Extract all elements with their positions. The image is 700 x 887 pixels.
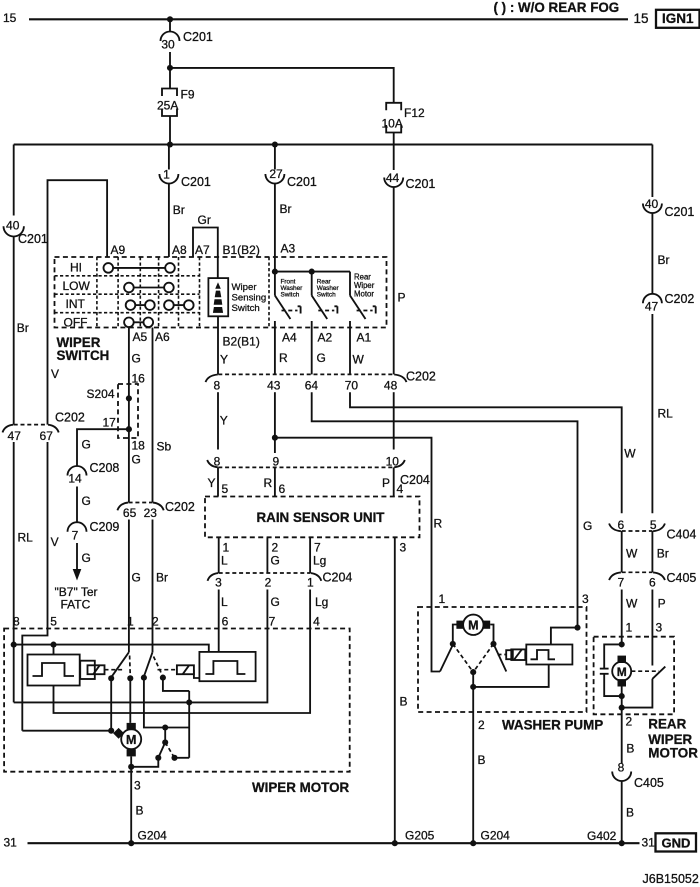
svg-text:A9: A9 [111,243,126,257]
svg-text:18: 18 [132,439,146,453]
svg-text:1: 1 [626,621,633,635]
svg-text:RL: RL [18,531,34,545]
svg-text:Br: Br [17,321,29,335]
svg-text:3: 3 [400,541,407,555]
svg-text:B1(B2): B1(B2) [223,243,260,257]
svg-text:G: G [271,554,280,568]
svg-text:B: B [626,742,634,756]
svg-text:6: 6 [222,615,229,629]
wire IGN1 top bus [29,18,628,20]
svg-text:31: 31 [4,836,18,850]
wire F12 to C201-44 [393,133,395,171]
svg-text:2: 2 [626,715,633,729]
svg-text:M: M [617,665,627,679]
svg-text:G: G [132,571,141,585]
wire P C405-6 to rear wiper pin 3 [651,590,653,666]
svg-text:G: G [82,494,91,508]
svg-text:14: 14 [68,472,82,486]
rear wiper park switch linkage [631,670,659,672]
junction sense on pin8 rail [186,699,192,705]
junction F9/F12 feed [167,65,173,71]
svg-text:47: 47 [8,429,22,443]
washer relay pulse box [526,645,572,665]
wire switch2 contact to parking rail [144,678,189,728]
svg-text:B: B [478,753,486,767]
svg-text:Y: Y [220,414,228,428]
wire junction down to fuse F9 [169,68,171,89]
connector C208 pin 14 [68,461,120,486]
wire P C202-48 to C204-10 [393,392,395,449]
wire S204-17 branch to C208 [77,429,129,466]
ground bus [28,842,640,844]
svg-text:R: R [434,517,443,531]
node IGN1 box [656,10,700,28]
wire C204-8 into rain sensor pin 5 [217,467,219,496]
wire contact to motor rail [110,678,112,730]
svg-text:15: 15 [634,11,649,26]
svg-text:Switch: Switch [232,303,260,314]
svg-text:31: 31 [642,836,656,850]
wire relay bottom to output [473,665,549,687]
contact INT row pair 2 [164,300,194,310]
svg-text:G: G [82,438,91,452]
parking switch common junction [162,724,168,730]
wiper switch internal dashed grid columns [96,257,98,328]
svg-text:G204: G204 [481,829,511,843]
junction A3 node [272,269,278,275]
svg-text:WIPER MOTOR: WIPER MOTOR [252,780,350,795]
svg-text:9: 9 [272,454,279,468]
wire C204-9 into rain sensor pin 6 [274,467,276,496]
svg-text:G205: G205 [405,829,435,843]
connector C201 pin 30 [161,30,213,52]
wire pin 5 internal route [22,629,47,731]
capacitor suppressor [600,669,609,674]
wire top rail to relay R [14,645,209,652]
wire motor bottom node [621,687,623,708]
svg-text:W: W [353,353,365,367]
rear washer switch [312,272,338,328]
junction switch 1 linkage contact [127,675,133,681]
wire L C204-3 to wiper motor pin 6 [218,590,220,629]
connector C202 pin 47 right [643,292,695,314]
svg-text:L: L [221,595,228,609]
svg-text:C201: C201 [665,205,695,219]
wire RL to wiper motor pin 8 [13,442,15,629]
wire C201-27 to A3, label Br [274,184,276,272]
rain sensor unit enclosure [205,497,420,538]
svg-text:Gr: Gr [198,213,211,227]
svg-text:10A: 10A [382,117,403,131]
svg-text:64: 64 [305,379,319,393]
wire pin 8 rail to pin 7 [14,629,268,703]
svg-text:6: 6 [649,576,656,590]
svg-text:F9: F9 [181,88,195,102]
svg-text:1: 1 [439,592,446,606]
svg-text:C202: C202 [406,370,436,384]
wire B to ground G402 [621,781,623,843]
wire P from C201-44 to C202-48 [393,187,395,374]
junction rear washer branch [309,269,315,275]
wire arrow to FATC [73,543,91,581]
svg-text:REAR: REAR [648,717,686,732]
svg-text:Wiper: Wiper [232,282,258,293]
contact HI row [104,263,175,273]
wire Br to C202-47 right [651,213,653,294]
svg-text:Lg: Lg [315,595,328,609]
svg-text:B: B [626,806,634,820]
junction parking contact left [155,755,161,761]
svg-text:L: L [221,554,228,568]
svg-text:25A: 25A [157,99,178,113]
wire Br C404-5 to C405-6 [651,531,653,572]
connector C405 row [609,571,696,590]
wire pin 6 to relay R top [218,629,220,652]
wire R branch to washer pump pin 1 [275,438,432,607]
wire sense vertical [188,691,190,758]
relay L pulse box [28,655,80,686]
wire G C202-64 to washer pump 3 [312,392,578,607]
connector C201 pin 1 [159,145,211,190]
svg-text:LOW: LOW [63,279,91,293]
svg-text:6: 6 [617,518,624,532]
svg-text:G: G [132,352,141,366]
washer pump motor M [456,615,490,635]
parking switch linkage [165,742,174,757]
svg-text:65: 65 [123,506,137,520]
svg-text:Br: Br [156,571,168,585]
connector C201 pin 40 left [4,218,48,246]
wire W A1 to C202-70 [349,328,351,375]
wire G A5 through S204 to wiper motor pin 1 [128,328,130,503]
switch 2 linkage [154,657,163,677]
contact OFF row [124,318,153,328]
svg-text:INT: INT [66,297,86,311]
svg-text:W: W [624,447,636,461]
wire RL to C404-5 [651,314,653,513]
svg-text:S204: S204 [87,387,115,401]
linkage to washer coil [498,654,507,656]
svg-text:6: 6 [279,482,286,496]
svg-text:Sensing: Sensing [232,293,267,304]
connector C201 pin 27 [265,145,317,190]
svg-text:P: P [658,597,666,611]
wiper sensing switch [208,278,228,316]
svg-text:8: 8 [13,615,20,629]
node GND box [656,833,697,851]
parking switch blade [158,742,165,757]
wire pin 8 internal drop [13,629,15,703]
svg-text:C208: C208 [90,461,120,475]
svg-text:C202: C202 [165,500,195,514]
connector C202 pins 65/23 [117,500,195,520]
svg-text:C405: C405 [667,571,697,585]
svg-text:FATC: FATC [61,597,91,611]
svg-text:3: 3 [134,779,141,793]
svg-text:W: W [626,597,638,611]
wire C201-30 to junction [169,52,171,68]
wire main bus [14,143,653,145]
svg-text:A3: A3 [281,242,296,256]
svg-text:G: G [583,519,592,533]
svg-text:C209: C209 [90,520,120,534]
svg-text:Br: Br [173,203,185,217]
svg-text:8: 8 [618,761,625,775]
wire R C202-43 to C204-9 [274,392,276,453]
junction relay L feed [50,642,56,648]
washer pump enclosure [418,607,587,712]
connector C201 pin 44 [384,171,435,191]
wire linkage contact to pin8 rail [163,678,189,691]
svg-text:1: 1 [223,541,230,555]
svg-text:Br: Br [280,202,292,216]
junction contact rail motor [108,728,114,734]
wire pin 2 internal drop [152,629,154,653]
svg-text:G: G [317,351,326,365]
svg-text:V: V [51,535,59,549]
connector C204 top row [207,454,430,487]
svg-text:8: 8 [214,454,221,468]
wire pin 3 to relay top [551,628,578,645]
svg-text:( ) : W/O REAR FOG: ( ) : W/O REAR FOG [494,0,620,15]
wiper motor M [113,723,141,757]
washer coil [506,649,525,660]
wire parking right to sense vertical [175,757,190,759]
svg-text:A7: A7 [195,243,210,257]
svg-text:C201: C201 [406,177,436,191]
svg-text:HI: HI [70,260,82,274]
svg-text:R: R [279,351,288,365]
svg-text:C202: C202 [55,411,85,425]
wire stub to relay L [53,645,55,655]
svg-text:1: 1 [127,615,134,629]
svg-text:Y: Y [208,476,216,490]
rear wiper motor M [612,656,631,687]
wire Gr jumper A7 to sensing switch [193,228,218,279]
wire Sb A6 to wiper motor pin 2 [152,328,154,503]
wire Br to C202-47 [13,237,15,425]
linkage coil L to switch 1 [105,669,125,671]
junction switch 2 contact [141,675,147,681]
svg-text:C202: C202 [665,292,695,306]
svg-text:2: 2 [272,541,279,555]
wiper switch internal dashed grid rows [55,275,200,277]
svg-text:70: 70 [345,379,359,393]
svg-text:1: 1 [307,576,314,590]
contact INT row pair 1 [126,300,155,310]
wire washer pump pin 2 to ground [472,687,474,843]
svg-text:M: M [468,619,478,633]
junction motor bottom [128,764,134,770]
svg-text:10: 10 [386,454,400,468]
ground G204 washer pump [470,840,476,846]
wire motor bottom to ground node [130,756,132,766]
svg-text:P: P [382,476,390,490]
svg-text:44: 44 [386,171,400,185]
svg-text:OFF: OFF [64,316,88,330]
front washer switch [275,272,301,328]
junction output node [619,705,625,711]
svg-text:2: 2 [152,615,159,629]
junction A3 branch bus [272,141,278,147]
wire pin 2 to C405-8 [621,708,623,764]
svg-text:C201: C201 [181,175,211,189]
wire bus left drop [13,145,15,216]
svg-text:7: 7 [72,529,79,543]
svg-text:W: W [626,547,638,561]
rear wiper motor switch [350,272,376,328]
wire bus right drop [651,145,653,198]
svg-text:C405: C405 [634,776,664,790]
connector C202 pins 47/67 left [3,411,85,444]
wire sensing switch to B2(B1) [217,316,219,327]
junction on top bus [167,16,173,22]
contact LOW row [124,283,174,293]
wire linkage contact to motor top [129,678,131,723]
svg-text:7: 7 [269,615,276,629]
svg-text:Br: Br [658,253,670,267]
svg-text:43: 43 [267,379,281,393]
junction F9 bus [167,141,173,147]
svg-text:4: 4 [397,482,404,496]
svg-text:G204: G204 [138,829,168,843]
junction switch 1 contact [108,675,114,681]
svg-text:3: 3 [656,621,663,635]
svg-text:2: 2 [478,718,485,732]
svg-text:17: 17 [103,416,117,430]
svg-text:C201: C201 [183,30,213,44]
svg-text:RL: RL [658,407,674,421]
svg-text:A6: A6 [155,330,170,344]
relay R pulse box [199,652,255,681]
svg-text:A8: A8 [172,243,187,257]
svg-text:15: 15 [3,11,17,25]
ground G205 [392,840,398,846]
wire left contact to motor terminal [453,625,457,644]
wire rain sensor pin 3 to ground G205 [394,537,396,843]
svg-text:B2(B1): B2(B1) [223,335,260,349]
svg-text:F12: F12 [404,106,425,120]
svg-text:WASHER PUMP: WASHER PUMP [502,718,603,733]
fuse F12 10A [382,103,426,133]
svg-text:A2: A2 [318,331,333,345]
junction rear wiper pin 1 [619,641,625,647]
junction washer output [470,684,476,690]
switch 2 blade [144,652,153,676]
connector C202 row [206,370,436,393]
junction motor bottom [619,693,625,699]
svg-text:Br: Br [657,547,669,561]
linkage switch 2 to coil R [158,669,176,671]
svg-text:40: 40 [6,218,20,232]
wire suppressor branch [604,644,622,668]
wire Lg rain sensor pin 7 to C204-1 [309,537,311,573]
svg-text:G402: G402 [587,829,617,843]
svg-text:C204: C204 [323,571,353,585]
splice S204 [87,384,139,438]
junction parking pivot [162,739,168,745]
ground G204 wiper motor [128,840,134,846]
svg-text:Sb: Sb [157,440,172,454]
wire relay L out to pin 4 rail [54,629,311,714]
coil R [177,665,200,678]
svg-text:5: 5 [650,518,657,532]
svg-text:2: 2 [265,576,272,590]
svg-text:7: 7 [314,541,321,555]
junction S204 pin 16 [126,395,132,401]
svg-text:40: 40 [645,197,659,211]
svg-text:27: 27 [269,167,283,181]
wire bus to connector C201-30 [169,19,171,31]
svg-text:7: 7 [618,576,625,590]
wire C204-10 into rain sensor pin 4 [393,467,395,496]
wire suppressor to motor bottom [604,674,622,696]
wire pin 5 rail to motor [22,730,114,732]
svg-text:8: 8 [213,379,220,393]
wiper motor enclosure [4,629,350,772]
rear wiper motor enclosure [594,637,675,715]
svg-text:V: V [51,367,59,381]
svg-text:23: 23 [144,506,158,520]
svg-text:G: G [82,551,91,565]
svg-text:5: 5 [50,615,57,629]
wire L rain sensor pin 1 to C204-3 [218,537,220,573]
svg-text:M: M [126,733,136,747]
svg-text:A1: A1 [357,331,372,345]
wire W C405-7 to rear wiper pin 1 [621,590,623,645]
svg-text:P: P [398,291,406,305]
svg-text:4: 4 [313,615,320,629]
svg-text:C201: C201 [287,175,317,189]
wire A3 distribution [275,271,350,273]
washer linkage left [453,644,473,672]
connector C201 pin 40 right [643,197,695,219]
svg-text:A4: A4 [282,331,297,345]
wire W C404-6 to C405-7 [621,531,623,572]
svg-text:30: 30 [161,38,175,52]
wire Y B2(B1) to C202-8 [217,328,219,375]
svg-text:Switch: Switch [281,292,300,299]
svg-text:47: 47 [645,300,659,314]
wire Y C202-8 to C204-8 [217,392,219,449]
svg-text:Switch: Switch [317,292,336,299]
svg-text:SWITCH: SWITCH [57,348,110,363]
svg-text:RAIN SENSOR UNIT: RAIN SENSOR UNIT [257,510,386,525]
wire junction to F12 branch [170,68,394,103]
svg-text:1: 1 [163,168,170,182]
svg-text:67: 67 [40,429,54,443]
ground G402 [619,840,625,846]
wire parking common drop [164,728,166,743]
junction R to washer pump branch [272,435,278,441]
wire pin 1 internal drop [128,629,130,653]
svg-text:J6B15052: J6B15052 [643,872,699,886]
wire common to output node [472,672,474,687]
svg-text:G: G [132,453,141,467]
switch 1 linkage [129,656,132,678]
fuse F9 25A [157,88,195,117]
junction parking contact right [171,755,177,761]
junction switch 2 linkage contact [160,675,166,681]
wire R A4 to C202-43 [274,328,276,375]
junction washer switch left [450,641,456,647]
junction S204 pin 17 [126,426,132,432]
connector C404 row [609,518,696,542]
junction pin 8 top rail [11,642,17,648]
svg-text:Y: Y [220,353,228,367]
svg-text:C201: C201 [18,232,48,246]
svg-text:G: G [271,595,280,609]
